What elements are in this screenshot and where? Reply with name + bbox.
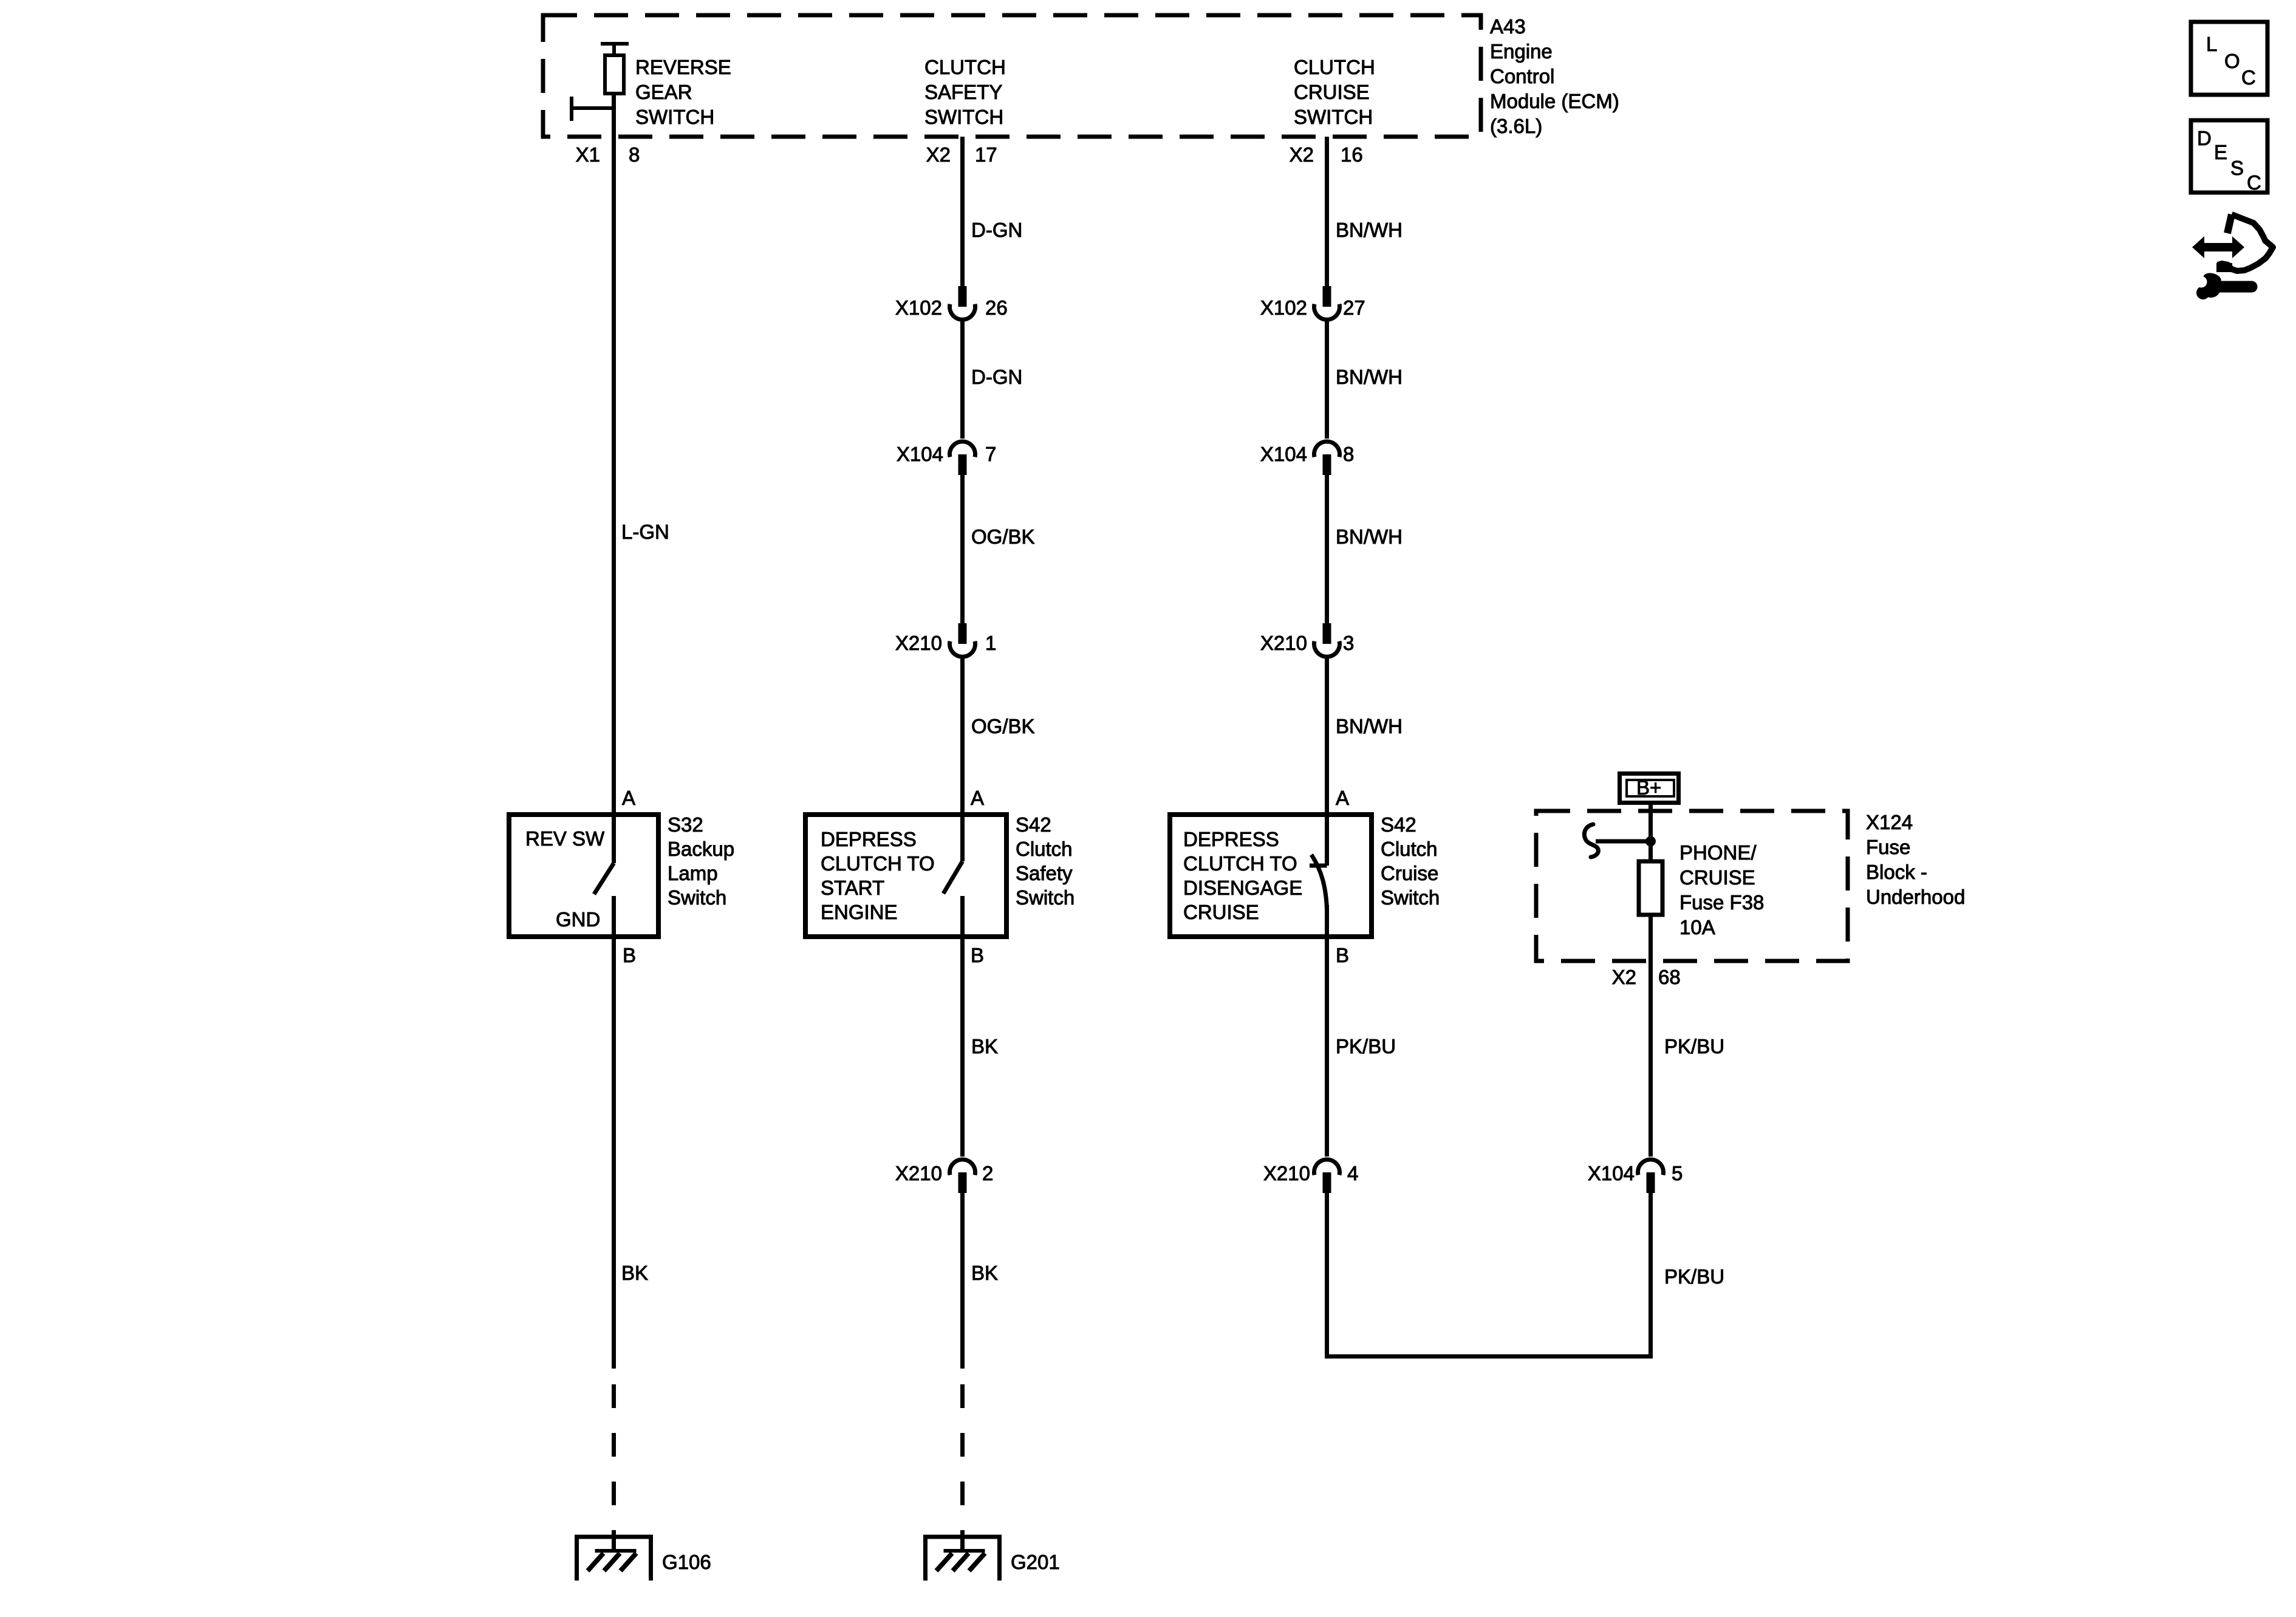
- svg-text:Backup: Backup: [668, 838, 734, 860]
- svg-text:PK/BU: PK/BU: [1664, 1265, 1724, 1288]
- svg-text:68: 68: [1658, 966, 1681, 988]
- svg-text:Clutch: Clutch: [1381, 838, 1438, 860]
- svg-text:X210: X210: [1263, 1162, 1310, 1185]
- svg-text:C: C: [2247, 171, 2261, 194]
- svg-text:Block -: Block -: [1866, 861, 1927, 883]
- svg-text:E: E: [2214, 141, 2227, 163]
- svg-text:DEPRESS: DEPRESS: [1183, 828, 1279, 850]
- svg-text:SWITCH: SWITCH: [1294, 106, 1373, 128]
- svg-text:Switch: Switch: [1016, 886, 1075, 909]
- svg-text:S: S: [2230, 157, 2244, 179]
- svg-text:Underhood: Underhood: [1866, 886, 1965, 908]
- svg-text:BK: BK: [971, 1262, 998, 1284]
- svg-text:16: 16: [1341, 143, 1363, 166]
- svg-text:8: 8: [1343, 443, 1354, 465]
- svg-text:D-GN: D-GN: [971, 366, 1022, 388]
- svg-text:SWITCH: SWITCH: [635, 106, 714, 128]
- svg-text:D: D: [2197, 127, 2212, 149]
- svg-text:C: C: [2241, 66, 2256, 89]
- svg-text:(3.6L): (3.6L): [1490, 115, 1542, 137]
- svg-text:Fuse F38: Fuse F38: [1679, 891, 1764, 914]
- svg-text:X210: X210: [895, 1162, 942, 1185]
- svg-text:S42: S42: [1016, 813, 1051, 836]
- svg-text:A: A: [622, 787, 635, 809]
- svg-text:A: A: [1336, 787, 1349, 809]
- svg-text:L-GN: L-GN: [621, 521, 669, 543]
- svg-text:PK/BU: PK/BU: [1336, 1035, 1396, 1058]
- svg-text:REV SW: REV SW: [525, 827, 605, 850]
- svg-text:GND: GND: [556, 908, 600, 931]
- svg-text:SAFETY: SAFETY: [924, 81, 1002, 103]
- svg-text:17: 17: [975, 143, 997, 166]
- svg-text:Clutch: Clutch: [1016, 838, 1073, 860]
- svg-text:OG/BK: OG/BK: [971, 715, 1035, 737]
- svg-text:10A: 10A: [1679, 916, 1715, 938]
- svg-text:X1: X1: [576, 143, 600, 166]
- svg-text:X2: X2: [1290, 143, 1314, 166]
- svg-text:S32: S32: [668, 813, 703, 836]
- svg-text:Fuse: Fuse: [1866, 836, 1910, 858]
- svg-text:Cruise: Cruise: [1381, 862, 1438, 884]
- svg-text:B: B: [971, 944, 984, 966]
- svg-text:BN/WH: BN/WH: [1336, 525, 1403, 548]
- svg-text:CRUISE: CRUISE: [1679, 866, 1755, 889]
- svg-text:ENGINE: ENGINE: [821, 901, 898, 923]
- svg-text:G106: G106: [662, 1551, 711, 1573]
- svg-text:1: 1: [985, 632, 996, 654]
- svg-text:D-GN: D-GN: [971, 219, 1022, 241]
- svg-text:27: 27: [1343, 296, 1365, 319]
- svg-text:BN/WH: BN/WH: [1336, 715, 1403, 737]
- svg-text:A: A: [971, 787, 984, 809]
- svg-text:CRUISE: CRUISE: [1183, 901, 1259, 923]
- svg-text:Lamp: Lamp: [668, 862, 718, 884]
- svg-text:CLUTCH TO: CLUTCH TO: [1183, 852, 1297, 875]
- svg-text:BN/WH: BN/WH: [1336, 219, 1403, 241]
- svg-text:X102: X102: [895, 296, 942, 319]
- svg-text:Safety: Safety: [1016, 862, 1073, 884]
- svg-text:A43: A43: [1490, 15, 1526, 38]
- svg-text:CLUTCH: CLUTCH: [924, 56, 1006, 78]
- svg-text:2: 2: [982, 1162, 993, 1185]
- svg-text:X2: X2: [926, 143, 951, 166]
- svg-text:CLUTCH: CLUTCH: [1294, 56, 1375, 78]
- svg-text:Engine: Engine: [1490, 40, 1553, 63]
- svg-text:X104: X104: [1260, 443, 1307, 465]
- svg-text:X104: X104: [897, 443, 943, 465]
- svg-text:START: START: [821, 877, 884, 899]
- svg-text:L: L: [2206, 33, 2217, 55]
- svg-text:BK: BK: [621, 1262, 648, 1284]
- svg-text:8: 8: [629, 143, 640, 166]
- svg-text:X102: X102: [1260, 296, 1307, 319]
- svg-text:G201: G201: [1011, 1551, 1060, 1573]
- svg-text:REVERSE: REVERSE: [635, 56, 731, 78]
- svg-text:CRUISE: CRUISE: [1294, 81, 1370, 103]
- svg-text:Switch: Switch: [668, 886, 726, 909]
- svg-text:3: 3: [1343, 632, 1354, 654]
- svg-text:Control: Control: [1490, 65, 1554, 87]
- svg-text:PK/BU: PK/BU: [1664, 1035, 1724, 1058]
- svg-text:Module (ECM): Module (ECM): [1490, 90, 1619, 112]
- svg-text:B+: B+: [1636, 776, 1661, 799]
- svg-text:SWITCH: SWITCH: [924, 106, 1003, 128]
- svg-text:B: B: [1336, 944, 1349, 966]
- svg-text:4: 4: [1347, 1162, 1358, 1185]
- svg-text:Switch: Switch: [1381, 886, 1440, 909]
- svg-text:X210: X210: [1260, 632, 1307, 654]
- svg-text:B: B: [623, 944, 636, 966]
- svg-text:PHONE/: PHONE/: [1679, 841, 1757, 864]
- svg-text:5: 5: [1672, 1162, 1683, 1185]
- svg-text:O: O: [2224, 50, 2240, 72]
- svg-text:26: 26: [985, 296, 1008, 319]
- svg-text:OG/BK: OG/BK: [971, 525, 1035, 548]
- svg-text:GEAR: GEAR: [635, 81, 692, 103]
- svg-text:DISENGAGE: DISENGAGE: [1183, 877, 1302, 899]
- svg-text:X210: X210: [895, 632, 942, 654]
- svg-text:BN/WH: BN/WH: [1336, 366, 1403, 388]
- svg-text:7: 7: [985, 443, 996, 465]
- svg-text:CLUTCH TO: CLUTCH TO: [821, 852, 935, 875]
- svg-text:X104: X104: [1588, 1162, 1635, 1185]
- svg-text:S42: S42: [1381, 813, 1416, 836]
- svg-text:X2: X2: [1612, 966, 1636, 988]
- svg-text:DEPRESS: DEPRESS: [821, 828, 917, 850]
- svg-text:X124: X124: [1866, 811, 1913, 833]
- svg-text:BK: BK: [971, 1035, 998, 1058]
